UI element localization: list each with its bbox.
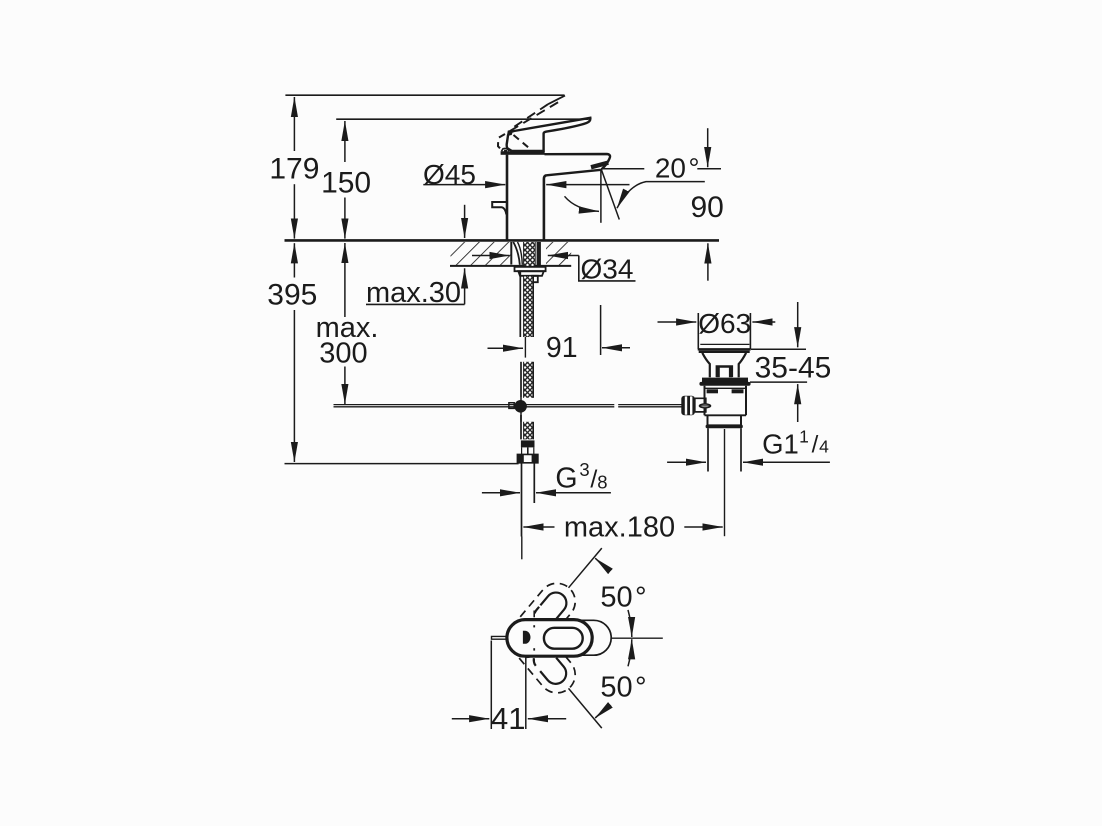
mounting nut: [518, 271, 544, 276]
top view vertical dash-dot centerline: [533, 611, 535, 618]
top view pull-rod knob: [492, 636, 508, 639]
faucet body right edge: [544, 175, 547, 239]
faucet axis extension for max.180: [521, 537, 523, 560]
drain neck boss: [717, 367, 732, 378]
dimension line 150 (vertical): [344, 121, 346, 162]
dimension Ø34 left arrow: [472, 255, 510, 257]
dimension 91 left arrow: [488, 347, 524, 349]
countertop hatch right: [546, 242, 571, 265]
extension line bottom of supply connection: [285, 463, 519, 465]
swivel ghost spout lower (dashed): [500, 611, 583, 700]
svg-text:41: 41: [491, 701, 525, 736]
svg-text:4: 4: [819, 436, 829, 456]
spout outlet aerator: [591, 163, 608, 168]
Ø34 leader: [579, 256, 636, 281]
svg-text:max.180: max.180: [564, 512, 675, 544]
svg-text:3: 3: [579, 459, 589, 480]
upper 50-degree arc with arrows: [595, 558, 606, 569]
dimension Ø63 right arrow: [752, 321, 775, 323]
pop-up rod horizontal: [334, 404, 615, 406]
spout top edge: [545, 154, 611, 169]
drain flange rim: [698, 349, 751, 352]
drain upper cup right edge: [749, 313, 751, 349]
top view body outline (thick stadium): [507, 620, 592, 657]
threaded shank in hole: [524, 242, 536, 266]
lever raised top edge dashed: [510, 104, 548, 129]
dimension Ø45 right arrow: [546, 184, 629, 186]
faucet body left edge: [506, 155, 509, 240]
pop-up rod attachment stud: [531, 276, 537, 282]
spray 20-degree slant line: [601, 169, 619, 219]
drain body upper band: [705, 386, 747, 416]
svg-text:150: 150: [321, 167, 371, 200]
extension line: top of raised lever (179): [285, 94, 564, 96]
dimension 90 lower arrow: [707, 243, 709, 280]
dimension max.180 left arrow: [523, 526, 554, 528]
faucet base escutcheon band: [501, 151, 545, 155]
svg-text:50 °: 50 °: [600, 672, 646, 704]
drain lower cup bottom: [706, 425, 743, 429]
svg-text:50 °: 50 °: [600, 582, 646, 614]
mounting washer below deck: [515, 267, 546, 271]
spout tip extension line: [600, 305, 602, 355]
upper 50-degree diagonal line: [569, 548, 602, 588]
lower 50-degree arc with arrows: [595, 707, 606, 718]
drain upper cup left edge: [697, 313, 699, 349]
svg-text:179: 179: [269, 153, 319, 186]
lower 50-degree diagonal line: [569, 688, 602, 728]
countertop hatch left: [451, 242, 512, 265]
dimension 35-45 up arrow: [797, 384, 799, 422]
svg-text:Ø63: Ø63: [698, 308, 751, 339]
countertop top line: [285, 239, 720, 242]
top view spout outline (thin stadium): [520, 620, 611, 655]
20-degree leader top right: [697, 168, 721, 170]
lever pivot corner mark: [508, 130, 513, 135]
dimension G1-1/4 right arrow: [743, 461, 830, 463]
dimension Ø34 right arrow: [548, 255, 579, 257]
svg-text:Ø34: Ø34: [581, 253, 634, 284]
hose axis line through ball: [520, 398, 522, 422]
drain lower cup: [708, 415, 742, 425]
svg-text:G1: G1: [762, 428, 799, 459]
rod ball joint: [514, 400, 527, 413]
dimension max.180 right arrow: [684, 526, 722, 528]
lever raised bottom diagonal dashed: [514, 135, 531, 149]
lever raised bottom edge dashed: [507, 100, 562, 133]
dimension line 395 (vertical): [293, 243, 295, 277]
flexible hose upper segment: [524, 276, 534, 337]
rod coupler block: [695, 398, 706, 412]
drain body step: [705, 414, 747, 416]
svg-text:8: 8: [597, 471, 607, 492]
dimension Ø63 left arrow: [658, 321, 697, 323]
lever raised top edge (part solid): [548, 96, 565, 105]
35-45 upper extension line: [751, 348, 806, 350]
hose break axis line: [524, 337, 526, 358]
mounting hole left edge with hose curve: [510, 242, 512, 265]
drain seal flange: [702, 378, 748, 382]
dimension G1-1/4 left arrow: [667, 461, 706, 463]
flexible hose lower segment: [524, 422, 534, 440]
countertop bottom line: [450, 265, 571, 267]
svg-text:Ø45: Ø45: [423, 159, 476, 190]
svg-text:91: 91: [546, 332, 578, 364]
rod hole oval: [699, 404, 710, 408]
extension line: top of lever (150): [336, 118, 588, 120]
spout underside: [547, 170, 602, 176]
drain neck: [702, 353, 710, 377]
svg-text:90: 90: [691, 191, 724, 224]
swivel ghost spout upper (dashed): [500, 576, 583, 665]
dimension G3/8 left arrow: [482, 492, 520, 494]
drain axis line: [724, 429, 726, 536]
supply tube: [521, 463, 523, 537]
svg-text:/: /: [812, 431, 819, 458]
dimension 41 left arrow: [452, 718, 490, 720]
dimension max.30 up arrow: [464, 268, 466, 304]
dimension line max.300 (vertical): [344, 243, 346, 317]
dimension G3/8 right arrow: [536, 492, 611, 494]
pop-up rod right part after break: [618, 404, 681, 406]
dimension line 179 (vertical): [293, 97, 295, 151]
top view lever D mark: [523, 631, 530, 643]
mounting hole right edge black bar: [537, 242, 541, 266]
35-45 lower extension line: [750, 381, 807, 383]
20-degree leader bottom with curve to arrow: [617, 182, 705, 209]
drain body slots: [707, 389, 718, 393]
lever raised knuckle dashed outline: [498, 134, 507, 151]
G3/8 hex nut: [517, 454, 538, 462]
drain cup inner line: [700, 343, 749, 345]
top view horizontal centerline: [612, 637, 663, 639]
rod clevis: [509, 403, 514, 409]
dimension Ø45 left arrow: [423, 184, 505, 186]
svg-text:1: 1: [799, 427, 809, 447]
svg-text:395: 395: [267, 279, 317, 312]
dimension 41 right arrow: [528, 718, 566, 720]
svg-text:35-45: 35-45: [755, 352, 832, 385]
rod knurled coupler: [681, 396, 695, 416]
G3/8 collar stem: [527, 447, 529, 454]
flexible hose middle segment: [524, 362, 534, 398]
dimension max.30 down arrow: [464, 205, 466, 238]
svg-text:20 °: 20 °: [655, 152, 700, 183]
pull-rod knob on body: [492, 202, 507, 215]
G3/8 collar: [521, 440, 535, 447]
svg-text:300: 300: [319, 338, 367, 370]
41 left extension line: [490, 641, 492, 730]
41 right extension line: [525, 657, 527, 730]
lever handle solid: [507, 118, 591, 151]
drain tailpipe: [707, 428, 709, 471]
dimension 35-45 down arrow: [797, 302, 799, 347]
svg-text:G: G: [555, 463, 577, 495]
20-degree leader top left: [601, 168, 644, 170]
spray vertical reference line: [600, 169, 602, 222]
top view spout opening oval: [544, 628, 583, 649]
dimension 90 upper arrow: [707, 128, 709, 167]
spray left arc arrow: [565, 196, 600, 211]
dimension 91 right arrow: [602, 347, 630, 349]
escutcheon left lip: [502, 148, 510, 151]
